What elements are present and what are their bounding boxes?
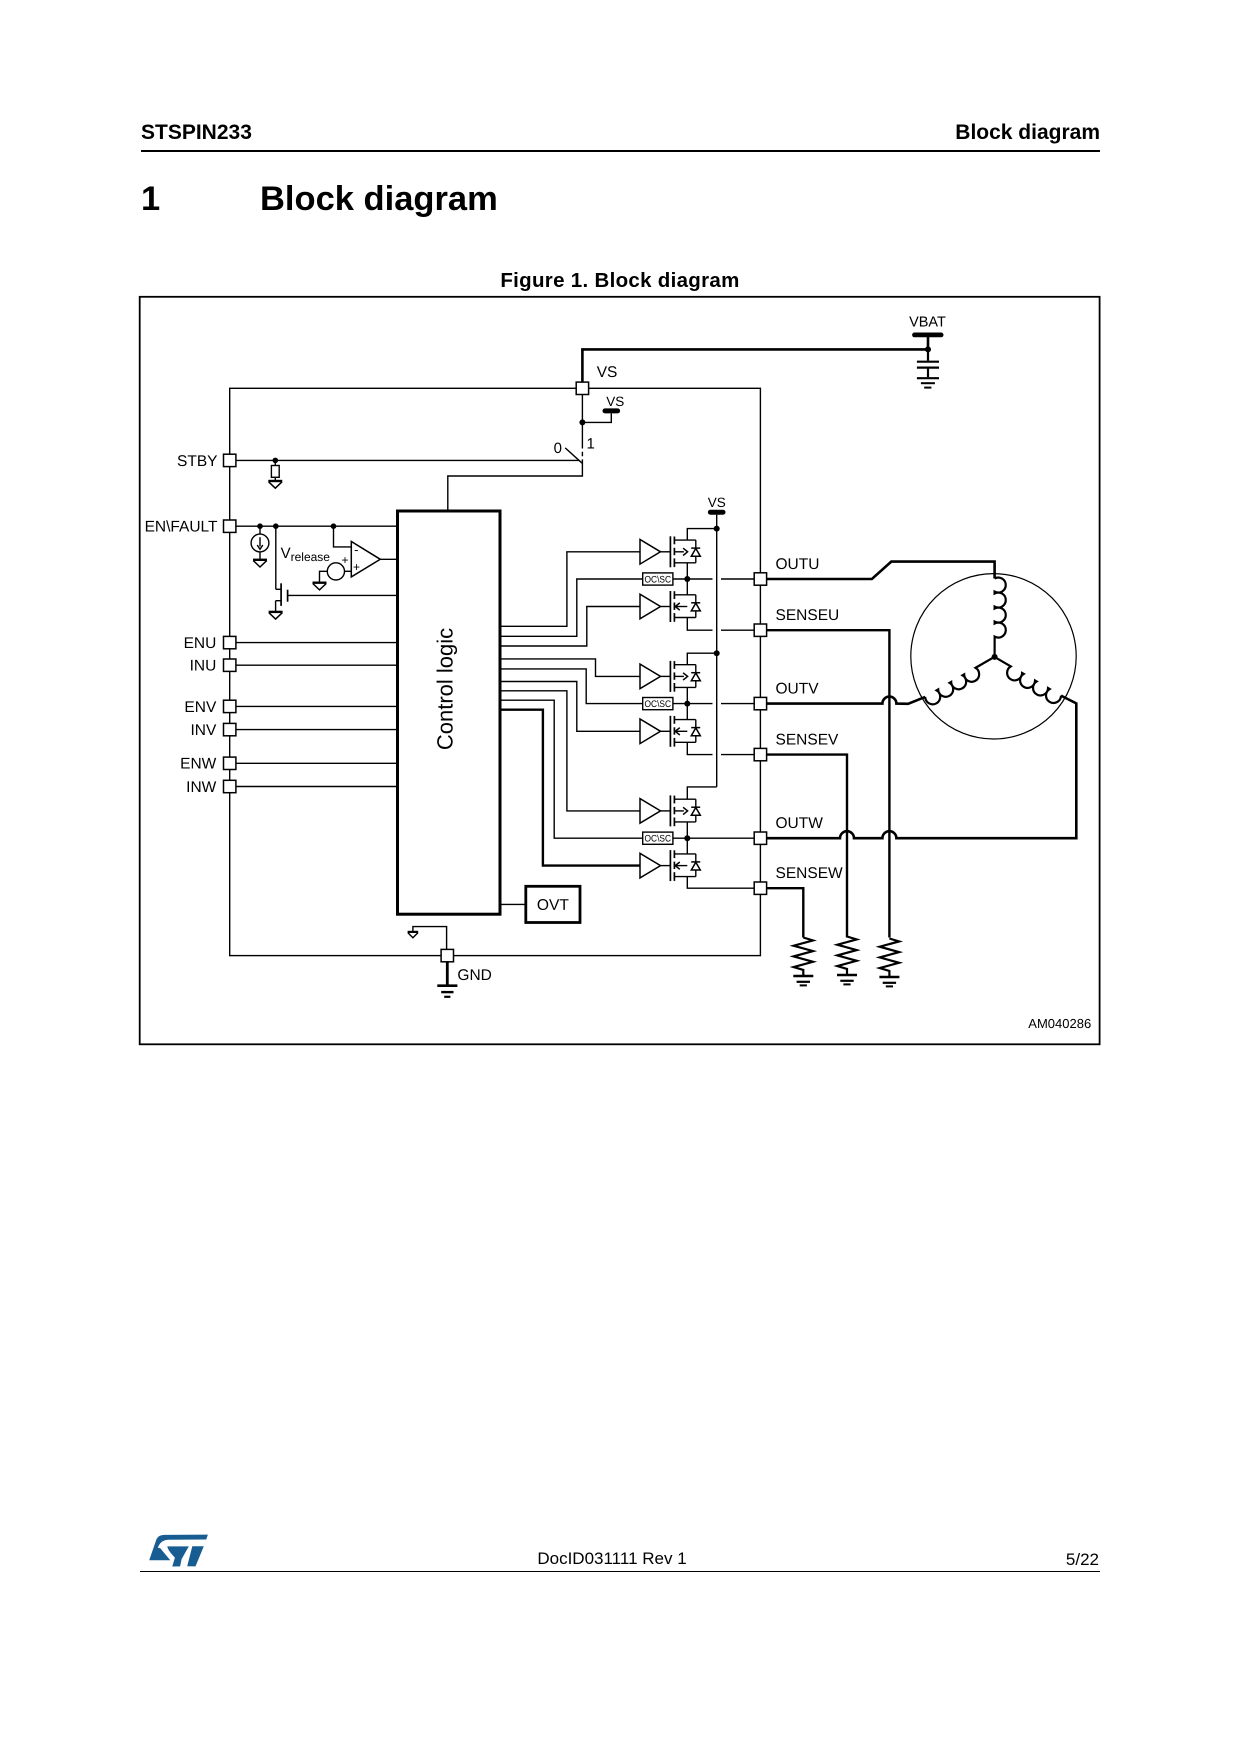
U high-side MOSFET xyxy=(670,536,700,567)
wire control logic to W low-side driver (thick) xyxy=(500,710,640,866)
comparator op-amp xyxy=(341,542,380,577)
wire INV xyxy=(236,729,398,731)
pin GND xyxy=(441,949,453,961)
pin OUTW xyxy=(754,832,766,844)
wire V high source to OUTV node xyxy=(686,687,688,703)
junction node OUTV xyxy=(684,701,690,707)
wire SENSEW to sense resistor RW (thick) xyxy=(767,888,804,937)
W high-side gate driver xyxy=(640,799,661,824)
motor U winding xyxy=(995,578,1006,657)
wire OUTW to motor W coil (thick, hops over SENSEV and SENSEU) xyxy=(767,696,1077,839)
svg-text:AM040286: AM040286 xyxy=(1028,1016,1091,1031)
ground arrow at control logic xyxy=(408,932,419,938)
svg-text:ENW: ENW xyxy=(180,756,217,773)
OC\SC U block xyxy=(643,573,673,586)
svg-text:+: + xyxy=(353,560,360,574)
sense resistor RV with ground xyxy=(837,937,857,985)
svg-text:VS: VS xyxy=(597,364,618,381)
VS trunk wire xyxy=(716,529,718,787)
wire to internal VS rail stub xyxy=(582,414,611,423)
wire ENW xyxy=(236,762,398,764)
svg-text:OUTW: OUTW xyxy=(776,815,824,832)
svg-text:Vrelease: Vrelease xyxy=(281,545,331,564)
OVT block xyxy=(526,886,580,922)
svg-text:INU: INU xyxy=(190,658,217,675)
junction node VS trunk U xyxy=(714,526,720,532)
pin SENSEU xyxy=(754,624,766,636)
motor star point node xyxy=(992,654,998,660)
svg-text:Control logic: Control logic xyxy=(433,628,458,750)
svg-text:STBY: STBY xyxy=(177,453,217,470)
ST logo xyxy=(145,1530,215,1572)
wire INU xyxy=(236,664,398,666)
pin SENSEW xyxy=(754,882,766,894)
junction node OUTU xyxy=(684,576,690,582)
motor V winding xyxy=(924,657,1000,707)
junction node VS trunk V xyxy=(714,650,720,656)
svg-text:ENU: ENU xyxy=(184,635,217,652)
pin VS xyxy=(576,382,588,394)
svg-text:EN\FAULT: EN\FAULT xyxy=(145,519,218,536)
reference voltage source circle xyxy=(320,563,352,583)
wire control logic to OC\SC W xyxy=(500,700,643,838)
wire W low source to SENSEW xyxy=(687,877,754,889)
junction node OUTW xyxy=(684,835,690,841)
ground symbol at GND pin xyxy=(437,962,457,997)
junction nodes on EN\FAULT wire xyxy=(257,523,263,529)
U low-side gate driver xyxy=(640,594,661,619)
wire OC\SC U to OUTU pin xyxy=(673,578,713,580)
header product name xyxy=(141,121,252,145)
sense resistor RU with ground xyxy=(879,939,899,987)
svg-text:VS: VS xyxy=(606,394,624,409)
svg-text:OVT: OVT xyxy=(537,897,570,914)
wire STBY to switch contact 0 xyxy=(236,459,579,461)
wire ENU xyxy=(236,642,398,644)
VS rail symbol (internal, by switch) xyxy=(603,394,625,414)
pin OUTV xyxy=(754,697,766,709)
wire control logic to W high-side driver xyxy=(500,691,640,811)
wire control logic to OVT xyxy=(500,903,526,905)
wire SENSEU to sense resistor RU (thick) xyxy=(767,630,890,937)
pin ENW xyxy=(224,757,236,769)
VBAT rail symbol xyxy=(909,315,946,350)
svg-text:GND: GND xyxy=(457,967,491,984)
header rule xyxy=(141,150,1100,152)
pin OUTU xyxy=(754,573,766,585)
device boundary rectangle xyxy=(230,388,761,955)
wire control logic to U high-side driver xyxy=(500,552,640,627)
section heading Block diagram xyxy=(260,180,498,219)
V low-side MOSFET xyxy=(670,716,700,747)
V high-side gate driver xyxy=(640,664,661,689)
wire transistor gate to control logic xyxy=(288,594,398,596)
fault pulldown transistor xyxy=(276,526,288,612)
junction node below VS pin xyxy=(579,419,585,425)
wire control logic to V low-side driver xyxy=(500,682,640,732)
switch (0/1 standby selector) xyxy=(554,435,595,463)
svg-text:-: - xyxy=(354,542,358,557)
figure frame xyxy=(140,297,1100,1045)
wire ENV xyxy=(236,705,398,707)
wire OC\SC V to OUTV pin xyxy=(673,703,713,705)
current source at EN\FAULT xyxy=(251,526,269,560)
U low-side MOSFET xyxy=(670,591,700,622)
OC\SC W block xyxy=(643,832,673,845)
svg-text:INV: INV xyxy=(190,722,217,739)
svg-text:SENSEV: SENSEV xyxy=(776,732,840,749)
wire VS pin to VBAT (thick top supply wire) xyxy=(581,349,584,382)
W low-side gate driver xyxy=(640,853,661,878)
wire W high source to OUTW node xyxy=(686,822,688,838)
wire control logic to U low-side driver xyxy=(500,607,640,647)
svg-text:SENSEU: SENSEU xyxy=(776,607,840,624)
ground arrow at reference source xyxy=(313,583,327,590)
svg-text:0: 0 xyxy=(554,440,562,457)
wire OUTU to motor U coil (thick) xyxy=(767,562,995,579)
wire W low drain to OUTW node xyxy=(686,838,688,854)
ground arrow below current source xyxy=(253,560,267,567)
svg-text:SENSEW: SENSEW xyxy=(776,865,844,882)
svg-text:VBAT: VBAT xyxy=(909,315,946,331)
svg-text:1: 1 xyxy=(587,435,595,452)
wire control logic to OC\SC V xyxy=(500,669,643,704)
wire EN\FAULT to control logic xyxy=(236,525,398,527)
W high-side MOSFET xyxy=(670,795,700,826)
header chapter name xyxy=(955,121,1100,145)
footer page number xyxy=(1066,1550,1099,1570)
wire INW xyxy=(236,786,398,788)
footer document id xyxy=(0,1549,1224,1569)
wire U high source to OUTU node xyxy=(686,563,688,579)
junction node at VBAT xyxy=(925,346,931,352)
junction node on STBY wire xyxy=(273,458,279,464)
pin EN\FAULT xyxy=(224,520,236,532)
pin STBY xyxy=(224,454,236,466)
sense resistor RW with ground xyxy=(793,938,813,986)
wire op-amp output to control logic xyxy=(380,558,397,560)
motor W winding xyxy=(989,657,1062,706)
V high-side MOSFET xyxy=(670,661,700,692)
wire U low source to SENSEU xyxy=(687,618,712,631)
ground arrow at STBY resistor xyxy=(268,481,282,488)
wire OC\SC W to OUTW pin xyxy=(673,837,754,839)
control logic block xyxy=(398,511,501,914)
svg-text:INW: INW xyxy=(186,779,217,796)
wire SENSEV to sense resistor RV (thick) xyxy=(767,755,847,938)
pin ENV xyxy=(224,700,236,712)
VS rail symbol above bridge xyxy=(708,495,726,529)
svg-text:ENV: ENV xyxy=(184,699,217,716)
wire V low drain to OUTV node xyxy=(686,704,688,720)
pin ENU xyxy=(224,636,236,648)
wire VS pin to switch node xyxy=(581,395,583,445)
pin INV xyxy=(224,723,236,735)
wire control logic to V high-side driver xyxy=(500,659,640,677)
pin SENSEV xyxy=(754,748,766,760)
wire inverting input from EN\FAULT node xyxy=(334,526,352,547)
V low-side gate driver xyxy=(640,719,661,744)
W low-side MOSFET xyxy=(670,850,700,881)
wire V low source to SENSEV xyxy=(687,742,712,754)
motor stator circle xyxy=(911,574,1076,739)
svg-text:OUTU: OUTU xyxy=(776,556,820,573)
wire control logic ground to GND pin xyxy=(413,927,447,950)
svg-text:OUTV: OUTV xyxy=(776,681,820,698)
decoupling capacitor at VBAT xyxy=(917,349,939,377)
ground arrow at transistor source xyxy=(269,612,283,619)
pin INU xyxy=(224,659,236,671)
OC\SC V block xyxy=(643,698,673,711)
U high-side gate driver xyxy=(640,540,661,565)
svg-text:VS: VS xyxy=(708,495,726,510)
ground at VBAT capacitor xyxy=(917,378,939,387)
wire OUTV to motor V coil (thick, hop over SENSEU) xyxy=(767,697,926,704)
wire VS trunk to W high drain xyxy=(687,787,716,799)
wire control logic to OC\SC U xyxy=(500,579,643,636)
figure caption xyxy=(0,269,1240,293)
wire U high drain to VS xyxy=(687,529,716,541)
pin INW xyxy=(224,780,236,792)
section number 1 xyxy=(141,180,160,219)
wire U low drain to OUTU node xyxy=(686,579,688,595)
footer rule xyxy=(140,1571,1100,1573)
wire switch to control logic top xyxy=(448,463,583,511)
wire V high drain to VS xyxy=(687,653,716,665)
pulldown resistor at STBY xyxy=(271,460,279,481)
